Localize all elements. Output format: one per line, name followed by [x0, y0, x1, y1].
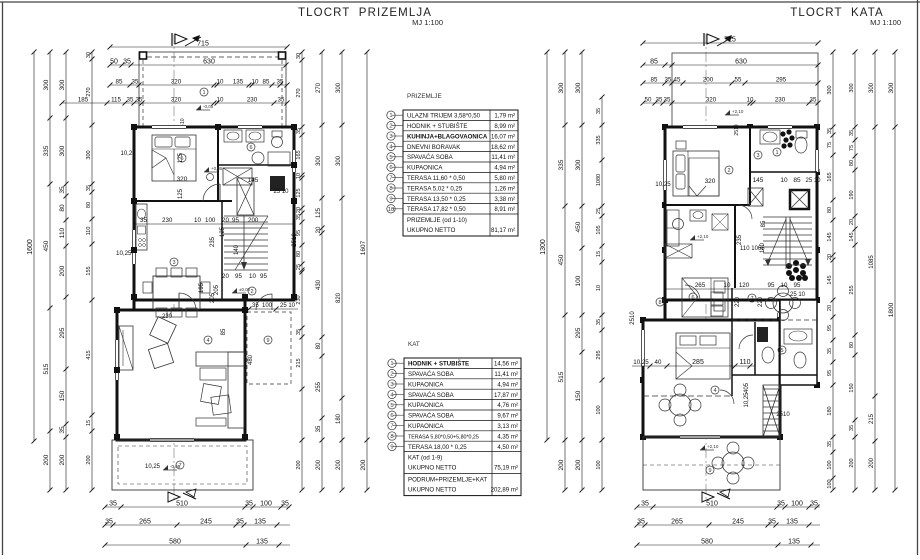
bed upper floor 3 [676, 333, 730, 379]
dimension row2 right plan [641, 77, 821, 86]
svg-text:10,25: 10,25 [744, 392, 750, 408]
staircase shaft lower right plan [763, 385, 780, 437]
svg-text:35: 35 [596, 108, 602, 114]
stair shaft wall right plan [780, 300, 817, 385]
terrace post top-right [279, 52, 286, 59]
svg-text:200: 200 [703, 77, 714, 84]
dashed divider upper right plan [732, 319, 817, 321]
svg-text:80: 80 [827, 207, 833, 213]
svg-text:7: 7 [750, 296, 753, 302]
void cross box upper [665, 244, 692, 258]
svg-text:285: 285 [692, 359, 704, 366]
svg-text:295: 295 [575, 327, 582, 338]
svg-text:100: 100 [791, 501, 803, 508]
bottom dim row3 left plan [103, 539, 291, 548]
svg-text:35: 35 [596, 319, 602, 325]
svg-text:265: 265 [139, 519, 151, 526]
svg-text:450: 450 [43, 240, 50, 251]
svg-text:100: 100 [827, 479, 833, 488]
svg-text:1600: 1600 [27, 239, 34, 255]
chain left C [86, 50, 95, 493]
svg-text:515: 515 [43, 363, 50, 374]
room number 7 upper floor [748, 294, 756, 302]
svg-text:450: 450 [558, 254, 565, 265]
svg-text:50: 50 [110, 59, 118, 66]
svg-text:202,89 m²: 202,89 m² [491, 487, 518, 494]
partition bath3 left right plan [754, 322, 756, 375]
svg-text:300: 300 [869, 82, 875, 93]
svg-text:205: 205 [210, 292, 216, 303]
svg-text:100: 100 [827, 460, 833, 469]
dimension row3 right plan [641, 97, 821, 106]
svg-text:35: 35 [665, 77, 672, 84]
svg-text:TERASA 5,80*0,50+5,80*0,25: TERASA 5,80*0,50+5,80*0,25 [408, 434, 479, 440]
outer wall upper block right plan [665, 127, 817, 300]
svg-text:2510: 2510 [630, 311, 636, 325]
chain right D left plan [360, 50, 370, 493]
svg-text:4,76 m²: 4,76 m² [497, 402, 518, 409]
svg-text:20: 20 [316, 226, 322, 233]
wall join right plan [664, 300, 667, 320]
terrace bottom dashed inner [118, 446, 247, 484]
svg-text:450: 450 [575, 221, 582, 232]
svg-text:235: 235 [210, 236, 216, 247]
svg-text:715: 715 [197, 41, 209, 48]
svg-text:80: 80 [849, 342, 855, 348]
svg-text:35: 35 [664, 97, 671, 104]
dimension row3 left plan [60, 97, 290, 106]
svg-text:270: 270 [86, 87, 92, 96]
svg-text:150: 150 [849, 383, 855, 392]
svg-text:295: 295 [776, 77, 787, 84]
svg-text:140: 140 [234, 244, 240, 255]
svg-text:35: 35 [296, 214, 302, 220]
svg-text:300: 300 [86, 150, 92, 159]
armchair 1 living room [150, 317, 177, 344]
svg-text:110 1065: 110 1065 [740, 246, 765, 252]
svg-text:3,38 m²: 3,38 m² [494, 196, 515, 203]
svg-text:295: 295 [596, 350, 602, 359]
svg-text:180: 180 [336, 413, 342, 424]
elevator shaft square right plan [790, 190, 809, 209]
svg-text:85: 85 [263, 79, 270, 86]
svg-text:125: 125 [316, 207, 322, 218]
svg-text:17,87 m²: 17,87 m² [494, 392, 518, 399]
svg-text:1: 1 [390, 361, 393, 367]
svg-text:335: 335 [43, 145, 50, 156]
svg-text:25 10: 25 10 [280, 303, 296, 309]
room number 2 ground floor [248, 287, 256, 295]
svg-text:320: 320 [705, 178, 716, 185]
svg-text:430: 430 [316, 279, 322, 290]
svg-text:35: 35 [296, 329, 302, 335]
door arc hall ground floor [179, 293, 196, 310]
svg-text:4,50 m²: 4,50 m² [497, 444, 518, 451]
svg-text:1: 1 [202, 90, 205, 96]
bath mid fixtures right plan [673, 210, 729, 230]
chain right C right plan [869, 50, 878, 493]
wall join left plan [133, 300, 136, 310]
svg-text:TERASA 18,00 * 0,25: TERASA 18,00 * 0,25 [408, 444, 467, 451]
svg-text:510: 510 [176, 501, 188, 508]
svg-text:20: 20 [296, 207, 302, 213]
svg-text:1607: 1607 [360, 240, 367, 255]
svg-text:±0,00: ±0,00 [239, 287, 251, 292]
svg-text:35: 35 [105, 519, 113, 526]
svg-text:35: 35 [136, 97, 143, 104]
svg-text:35: 35 [281, 501, 289, 508]
svg-text:35: 35 [123, 59, 131, 66]
svg-text:220: 220 [735, 296, 741, 307]
svg-text:165: 165 [827, 172, 833, 181]
room number 4 upper floor [711, 386, 719, 394]
svg-text:320: 320 [177, 176, 188, 183]
svg-text:10: 10 [781, 282, 788, 289]
svg-text:35: 35 [810, 501, 818, 508]
window dining left wall left plan [132, 230, 137, 264]
svg-text:200: 200 [336, 459, 342, 470]
svg-text:200: 200 [86, 455, 92, 464]
svg-text:150: 150 [575, 390, 582, 401]
svg-text:265: 265 [695, 282, 706, 289]
svg-text:MJ 1:100: MJ 1:100 [870, 18, 901, 27]
dimension 715 right plan [641, 37, 821, 46]
svg-text:270: 270 [296, 88, 302, 97]
svg-text:PODRUM+PRIZEMLJE+KAT: PODRUM+PRIZEMLJE+KAT [408, 477, 487, 484]
svg-text:200: 200 [59, 265, 66, 276]
svg-text:85: 85 [116, 79, 123, 86]
svg-text:405: 405 [744, 382, 750, 393]
staircase ground floor [224, 216, 268, 270]
svg-text:35: 35 [236, 519, 244, 526]
svg-text:200: 200 [43, 454, 50, 465]
door arc bath3 right plan [739, 335, 753, 349]
window bath top right plan [768, 125, 792, 130]
svg-text:2510: 2510 [776, 412, 790, 418]
room number 6 upper floor [689, 293, 697, 301]
inner dim row door right [245, 303, 298, 312]
svg-text:230: 230 [775, 97, 786, 104]
svg-text:1800: 1800 [888, 302, 895, 317]
dimension 630 row left plan [108, 59, 289, 68]
svg-text:100: 100 [262, 303, 273, 309]
chain left C right plan [596, 95, 605, 493]
round table room right plan [659, 384, 701, 426]
svg-text:3,13 m²: 3,13 m² [497, 423, 518, 430]
svg-text:150: 150 [59, 390, 66, 401]
svg-text:10,25: 10,25 [145, 464, 161, 470]
svg-text:TERASA 5,02 * 0,25: TERASA 5,02 * 0,25 [407, 185, 463, 192]
open plan dashed divider right plan [643, 395, 732, 397]
partition bath bottom left plan [218, 164, 294, 166]
svg-text:SPAVAĆA SOBA: SPAVAĆA SOBA [408, 413, 455, 420]
svg-text:230: 230 [162, 217, 173, 224]
svg-text:85: 85 [221, 328, 227, 335]
svg-text:200: 200 [558, 459, 565, 470]
svg-text:7: 7 [178, 463, 181, 469]
level marker terrace top [196, 109, 210, 111]
partition bedroom bottom right plan [665, 204, 750, 206]
svg-text:6: 6 [691, 295, 694, 301]
partition dining-living left plan [134, 309, 245, 311]
svg-text:200: 200 [296, 460, 302, 469]
room number 2 upper floor [725, 166, 733, 174]
svg-text:6: 6 [390, 413, 393, 419]
void cross box ground floor [223, 168, 254, 215]
window left wall right plan [663, 160, 668, 190]
inner dim row under bedroom wall [134, 217, 294, 224]
inner dim row 285 right plan [632, 359, 755, 369]
svg-text:-0,05: -0,05 [203, 104, 214, 109]
window bath top left plan [238, 125, 262, 130]
door arc bath upper [685, 285, 700, 300]
svg-text:2510: 2510 [734, 124, 740, 135]
svg-text:3: 3 [390, 382, 393, 388]
svg-text:8: 8 [389, 186, 392, 192]
svg-text:8: 8 [390, 434, 393, 440]
section marker top right plan [704, 33, 733, 46]
svg-text:95: 95 [260, 273, 267, 280]
dark fixture bath upper right [780, 129, 794, 148]
bed ground floor [152, 135, 196, 181]
svg-text:10: 10 [724, 282, 731, 289]
svg-text:125: 125 [178, 188, 184, 199]
svg-text:35: 35 [827, 128, 833, 134]
svg-text:110: 110 [59, 227, 66, 238]
svg-text:335: 335 [596, 135, 602, 144]
svg-text:80: 80 [316, 342, 322, 349]
sink bath upper right [760, 130, 780, 144]
svg-text:HODNIK + STUBIŠTE: HODNIK + STUBIŠTE [407, 123, 467, 130]
svg-text:20: 20 [827, 305, 833, 311]
terrace bottom ground floor [112, 440, 253, 490]
dark rosette stairs landing [786, 260, 808, 281]
svg-text:10: 10 [780, 177, 788, 184]
svg-text:25 10: 25 10 [790, 292, 806, 298]
chain right D right plan [888, 50, 898, 493]
svg-text:10: 10 [747, 97, 754, 104]
svg-text:3: 3 [389, 134, 392, 140]
svg-text:10: 10 [249, 273, 256, 280]
svg-text:510: 510 [706, 501, 718, 508]
svg-text:30: 30 [86, 52, 92, 58]
svg-text:35: 35 [849, 130, 855, 136]
svg-text:30: 30 [296, 53, 302, 59]
chain right A right plan [827, 50, 836, 493]
svg-text:300: 300 [59, 79, 66, 90]
svg-text:KUHINJA+BLAGOVAONICA: KUHINJA+BLAGOVAONICA [407, 133, 488, 140]
svg-text:195: 195 [199, 282, 205, 293]
svg-text:SPAVAĆA SOBA: SPAVAĆA SOBA [408, 392, 455, 399]
svg-text:11,41 m²: 11,41 m² [494, 371, 518, 378]
svg-text:KAT: KAT [408, 341, 420, 348]
cabinet dark bath ground floor [270, 176, 285, 191]
svg-text:335: 335 [558, 159, 565, 170]
svg-text:7: 7 [389, 176, 392, 182]
svg-text:40: 40 [655, 359, 662, 366]
svg-text:10,25: 10,25 [116, 250, 132, 257]
door arc bedroom upper [738, 205, 752, 219]
room number 1 upper floor b [773, 148, 781, 156]
bottom dim row3 right plan [635, 539, 821, 548]
level marker upper c [700, 449, 714, 451]
outer wall upper block left plan [134, 127, 294, 300]
chain right A left plan [296, 50, 305, 493]
inner dim 265 upper [665, 282, 817, 289]
svg-text:5: 5 [390, 403, 393, 409]
level marker bedroom [204, 171, 218, 173]
round table terrace right plan [712, 442, 754, 484]
svg-text:35: 35 [777, 501, 785, 508]
svg-text:DNEVNI BORAVAK: DNEVNI BORAVAK [407, 144, 460, 151]
svg-text:UKUPNO NETTO: UKUPNO NETTO [408, 465, 457, 472]
svg-text:10,25: 10,25 [655, 181, 671, 188]
window living bottom left plan [150, 438, 194, 443]
svg-text:300: 300 [316, 155, 322, 166]
armchair 2 living room [148, 343, 173, 368]
svg-text:200: 200 [59, 454, 66, 465]
svg-text:10: 10 [596, 285, 602, 291]
svg-text:35: 35 [252, 303, 259, 309]
wardrobe upper floor [667, 210, 679, 246]
door arc bedroom ground floor [203, 184, 220, 201]
svg-text:95: 95 [235, 273, 242, 280]
svg-text:45: 45 [674, 77, 681, 84]
window right wall right plan [815, 150, 820, 172]
staircase upper floor [763, 217, 812, 269]
bath3 fixtures right plan [757, 327, 812, 368]
partition mid bath right plan [734, 205, 736, 288]
svg-text:300: 300 [336, 155, 342, 166]
terrace dashed edge top left plan [139, 56, 286, 58]
svg-text:1,79 m²: 1,79 m² [494, 113, 515, 120]
svg-text:7: 7 [390, 424, 393, 430]
svg-text:95: 95 [827, 325, 833, 331]
chain left B [59, 50, 69, 493]
section marker bottom left plan [168, 489, 196, 502]
bottom dim row2 left plan [103, 519, 291, 528]
level marker upper a [725, 114, 739, 116]
svg-text:200: 200 [575, 459, 582, 470]
svg-text:630: 630 [735, 59, 747, 66]
svg-text:480: 480 [248, 354, 254, 365]
svg-text:4,94 m²: 4,94 m² [494, 165, 515, 172]
svg-text:35: 35 [768, 519, 776, 526]
svg-text:235: 235 [737, 234, 743, 245]
svg-text:10,25: 10,25 [120, 151, 136, 157]
svg-text:125: 125 [220, 226, 226, 237]
svg-text:81,17 m²: 81,17 m² [491, 227, 515, 234]
svg-text:300: 300 [575, 159, 582, 170]
svg-text:80: 80 [59, 204, 66, 212]
svg-text:KUPAONICA: KUPAONICA [408, 423, 444, 430]
svg-text:14,56 m²: 14,56 m² [494, 361, 518, 368]
void cross box upper right [748, 188, 763, 206]
svg-text:1085: 1085 [869, 255, 875, 269]
terrace post dashed line right [281, 60, 283, 127]
svg-text:300: 300 [59, 145, 66, 156]
svg-text:95: 95 [794, 282, 801, 289]
svg-text:2: 2 [390, 372, 393, 378]
svg-text:230: 230 [247, 97, 258, 104]
svg-text:1300: 1300 [540, 239, 547, 255]
svg-text:320: 320 [706, 97, 717, 104]
svg-text:145: 145 [849, 232, 855, 241]
room number 8 upper floor [656, 298, 664, 306]
svg-text:TERASA 17,82 * 0,50: TERASA 17,82 * 0,50 [407, 206, 466, 213]
terrace post dashed line left [142, 60, 144, 127]
svg-text:TERASA 13,50 * 0,25: TERASA 13,50 * 0,25 [407, 196, 466, 203]
svg-text:215: 215 [296, 358, 302, 367]
svg-text:5: 5 [180, 156, 183, 162]
svg-text:8,99 m²: 8,99 m² [494, 123, 515, 130]
svg-text:580: 580 [169, 539, 181, 546]
svg-text:75,19 m²: 75,19 m² [494, 465, 518, 472]
inner dim stairs row [222, 273, 267, 280]
svg-text:300: 300 [827, 85, 833, 94]
knob circle bedroom ground floor [207, 174, 214, 181]
chain right C left plan [336, 50, 345, 493]
svg-text:TERASA 11,60 * 0,50: TERASA 11,60 * 0,50 [407, 175, 466, 182]
svg-text:100: 100 [575, 275, 582, 286]
svg-text:95: 95 [768, 282, 775, 289]
svg-text:35: 35 [810, 97, 817, 104]
svg-text:35: 35 [59, 426, 66, 434]
terrace bottom right plan [643, 437, 780, 490]
svg-text:35: 35 [59, 186, 66, 194]
svg-text:+0,05: +0,05 [211, 166, 223, 171]
svg-text:MJ 1:100: MJ 1:100 [412, 18, 443, 27]
svg-text:SPAVAĆA SOBA: SPAVAĆA SOBA [408, 371, 455, 378]
svg-text:9: 9 [389, 196, 392, 202]
svg-text:145: 145 [827, 275, 833, 284]
window bottom right plan [680, 435, 720, 440]
bottom dim row1 left plan [103, 501, 292, 510]
svg-text:20: 20 [849, 219, 855, 225]
svg-text:135: 135 [254, 519, 266, 526]
window living left wall left plan [115, 340, 120, 380]
room number 9 ground floor [264, 336, 272, 344]
svg-text:9,67 m²: 9,67 m² [497, 413, 518, 420]
svg-text:105: 105 [596, 225, 602, 234]
svg-text:10: 10 [217, 79, 224, 86]
window right wall left plan [292, 150, 297, 172]
svg-text:UKUPNO NETTO: UKUPNO NETTO [408, 487, 457, 494]
svg-text:16,07 m²: 16,07 m² [491, 133, 515, 140]
svg-text:200: 200 [869, 457, 875, 468]
svg-text:KUPAONICA: KUPAONICA [408, 381, 444, 388]
partition stairs left plan [221, 201, 223, 300]
round table corner room right plan [766, 286, 801, 321]
wardrobe upper floor 2 [711, 292, 723, 305]
svg-text:295: 295 [59, 327, 66, 338]
chain 1300 right plan [540, 50, 550, 443]
room number 4 ground floor [204, 336, 212, 344]
svg-text:245: 245 [732, 519, 744, 526]
svg-text:35: 35 [827, 441, 833, 447]
svg-text:SPAVAĆA SOBA: SPAVAĆA SOBA [407, 154, 454, 161]
sofa living room [196, 352, 244, 428]
svg-text:+2,10: +2,10 [707, 444, 719, 449]
svg-text:5: 5 [780, 348, 783, 354]
bottom dim row1 right plan [635, 501, 821, 510]
section line A-A right plan [705, 34, 707, 500]
chain right B right plan [849, 50, 858, 493]
room number 1 ground floor [200, 88, 208, 96]
svg-text:35: 35 [637, 519, 645, 526]
svg-text:715: 715 [724, 37, 736, 44]
svg-text:145: 145 [753, 177, 764, 184]
